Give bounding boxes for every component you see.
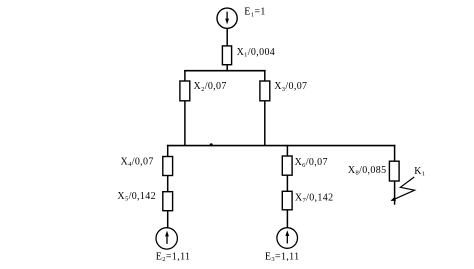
wire: upper bus to X2 — [184, 70, 186, 81]
svg-text:X7/0,142: X7/0,142 — [295, 192, 334, 204]
source E2 (generator EMF circle with up arrow) — [156, 228, 177, 249]
reactance X6 — [282, 156, 292, 175]
junction dot on lower bus — [210, 143, 213, 146]
source E1 (system EMF circle with down arrow) — [217, 8, 237, 28]
wire: X1 to upper bus — [226, 65, 228, 71]
wire: lower bus to X8 — [394, 145, 396, 161]
reactance X1 — [222, 46, 231, 65]
upper bus — [184, 70, 265, 72]
svg-text:E1=1: E1=1 — [244, 7, 265, 19]
short-circuit lightning bolt at K1 — [391, 177, 415, 201]
wire: lower bus to X4 — [167, 145, 169, 157]
wire: upper bus to X3 — [264, 70, 266, 81]
svg-text:E2=1,11: E2=1,11 — [156, 252, 191, 264]
source E3 (generator EMF circle with up arrow) — [277, 228, 298, 249]
svg-text:X8/0,085: X8/0,085 — [348, 165, 387, 177]
wire: X2 to lower bus — [184, 101, 186, 146]
wire: X5 to source E2 — [167, 211, 169, 228]
reactance X3 — [260, 81, 270, 101]
svg-text:X6/0,07: X6/0,07 — [295, 157, 328, 169]
reactance X2 — [180, 81, 190, 101]
reactance X8 — [389, 161, 399, 181]
wire: X3 to lower bus — [264, 101, 266, 146]
wire: X6 to X7 — [286, 175, 288, 191]
wire: X4 to X5 — [167, 176, 169, 192]
reactance X7 — [282, 191, 292, 210]
svg-text:X2/0,07: X2/0,07 — [194, 81, 227, 93]
reactance X5 — [163, 192, 173, 211]
svg-text:E3=1,11: E3=1,11 — [265, 252, 300, 264]
reactance X4 — [163, 157, 173, 176]
lower bus — [167, 145, 396, 147]
svg-text:X5/0,142: X5/0,142 — [117, 191, 156, 203]
wire: lower bus to X6 — [286, 145, 288, 156]
svg-text:X4/0,07: X4/0,07 — [121, 157, 154, 169]
svg-text:X1/0,004: X1/0,004 — [237, 47, 276, 59]
wire: X8 down to fault point — [394, 181, 396, 205]
wire: X7 to source E3 — [286, 210, 288, 228]
svg-text:X3/0,07: X3/0,07 — [274, 81, 307, 93]
wire: source E1 to X1 — [226, 28, 228, 46]
